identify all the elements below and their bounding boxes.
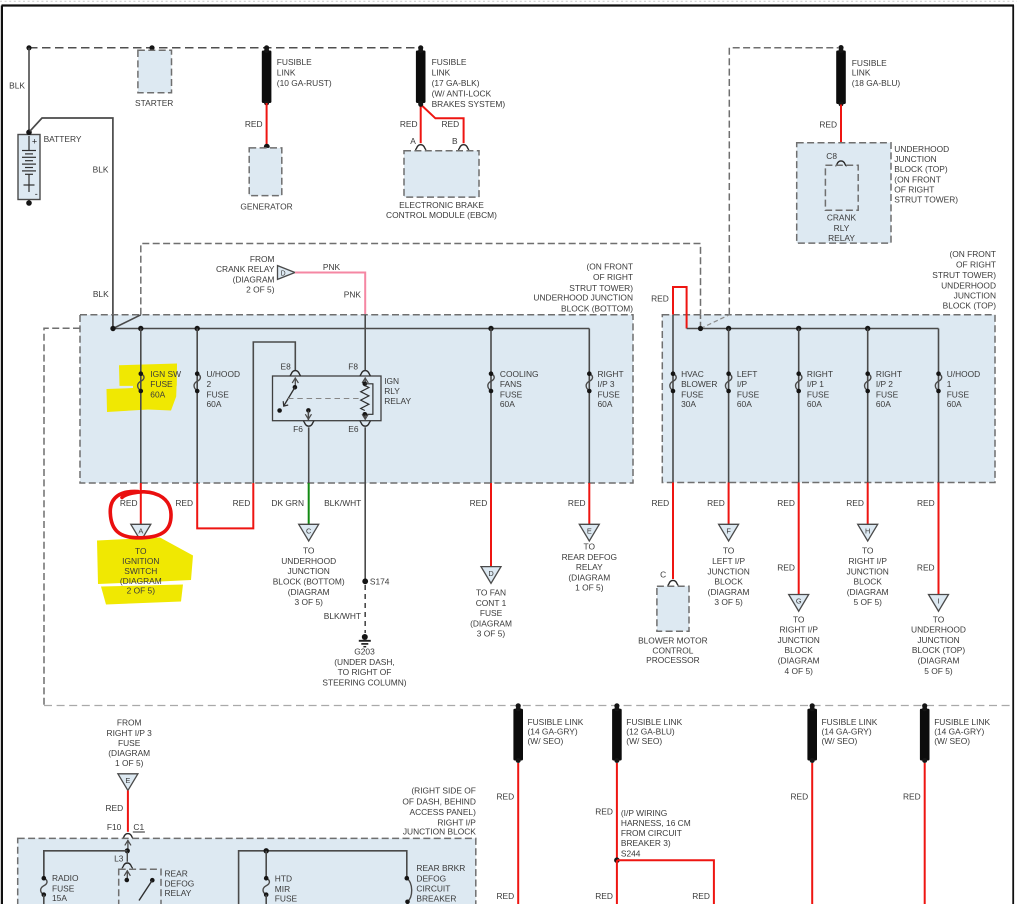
label U/HOOD 1 FUSE 60A (947, 369, 981, 409)
wire BLK/WHT to splice (364, 483, 366, 579)
svg-text:(DIAGRAM: (DIAGRAM (918, 656, 960, 666)
svg-text:LEFT I/P: LEFT I/P (712, 556, 745, 566)
svg-text:LINK: LINK (852, 68, 871, 78)
wire PNK from crank relay (295, 273, 365, 315)
junction dot HTD MIR tap (264, 848, 269, 853)
svg-text:RED: RED (497, 792, 515, 802)
wire RED link1 to generator (266, 103, 268, 146)
top power bus wire (dashed) (29, 47, 421, 49)
terminal arc E8 (290, 371, 301, 376)
svg-text:CONTROL MODULE (EBCM): CONTROL MODULE (EBCM) (386, 210, 497, 220)
svg-text:JUNCTION: JUNCTION (917, 635, 959, 645)
svg-text:60A: 60A (150, 389, 165, 399)
svg-text:DEFOG: DEFOG (416, 873, 446, 883)
annotation: yellow highlight on IGN SW FUSE (107, 364, 178, 413)
svg-text:JUNCTION: JUNCTION (847, 566, 889, 576)
fusible link F3 (18 GA-BLU) (836, 48, 846, 107)
bus wire in box 2 (687, 328, 939, 330)
wire RED to right I/P junction block (4 of 5) (798, 483, 800, 595)
underhood junction block (top) enclosure (797, 143, 891, 243)
terminal arc B (458, 145, 469, 150)
svg-text:(W/ SEO): (W/ SEO) (934, 736, 970, 746)
svg-text:(W/ SEO): (W/ SEO) (822, 736, 858, 746)
svg-text:(DIAGRAM: (DIAGRAM (108, 748, 150, 758)
svg-text:BLOCK (BOTTOM): BLOCK (BOTTOM) (561, 304, 633, 314)
svg-text:UNDERHOOD JUNCTION: UNDERHOOD JUNCTION (533, 293, 633, 303)
fuse COOLING FANS FUSE 60A (488, 371, 494, 393)
wire RED to EBCM pin B (421, 105, 464, 144)
svg-text:G: G (796, 597, 802, 606)
svg-text:COOLING: COOLING (500, 369, 539, 379)
svg-text:CIRCUIT: CIRCUIT (416, 884, 450, 894)
svg-text:LINK: LINK (432, 68, 451, 78)
label COOLING FANS FUSE 60A (500, 369, 539, 409)
svg-text:PROCESSOR: PROCESSOR (646, 655, 700, 665)
svg-text:-: - (35, 189, 38, 199)
svg-text:F: F (726, 527, 731, 536)
svg-text:RELAY: RELAY (384, 396, 411, 406)
svg-text:PNK: PNK (344, 289, 362, 299)
svg-text:TO FAN: TO FAN (476, 588, 506, 598)
label TO RIGHT I/P JUNCTION BLOCK (DIAGRAM 4 OF 5) (778, 614, 820, 676)
right I/P junction block box (18, 838, 476, 908)
svg-text:OF RIGHT: OF RIGHT (956, 260, 996, 270)
svg-text:E: E (587, 527, 592, 536)
underhood junction block (bottom) box (80, 315, 633, 483)
wire E6 to box bottom (364, 427, 366, 483)
label FROM RIGHT I/P 3 FUSE (DIAGRAM 1 OF 5) (107, 718, 153, 769)
svg-text:RED: RED (777, 498, 795, 508)
svg-text:DK GRN: DK GRN (271, 498, 304, 508)
svg-text:CONT 1: CONT 1 (476, 598, 507, 608)
node: link 2 bottom (418, 102, 423, 107)
label FROM CRANK RELAY (DIAGRAM 2 OF 5) (216, 254, 275, 295)
svg-text:G203: G203 (354, 647, 375, 657)
svg-text:I/P 1: I/P 1 (807, 379, 824, 389)
terminal arc F6 (303, 421, 314, 426)
svg-text:U/HOOD: U/HOOD (207, 369, 241, 379)
annotation: red circle around RED/A connector (110, 491, 171, 537)
fuse LEFT I/P FUSE 60A (725, 371, 731, 393)
svg-text:OF DASH, BEHIND: OF DASH, BEHIND (402, 796, 476, 806)
svg-text:RED: RED (175, 498, 193, 508)
node: relay coil pin (125, 878, 130, 883)
node: relay contact pin (150, 878, 155, 883)
fuse HVAC BLOWER FUSE 30A (670, 371, 676, 393)
svg-text:FUSE: FUSE (118, 738, 141, 748)
svg-text:RED: RED (651, 293, 669, 303)
connector triangle H (858, 524, 878, 541)
junction dot IGN SW tap (138, 326, 143, 331)
svg-text:2 OF 5): 2 OF 5) (246, 285, 275, 295)
pin arrow F8 (362, 378, 368, 387)
svg-text:UNDERHOOD: UNDERHOOD (281, 556, 336, 566)
node: battery positive (26, 130, 32, 136)
svg-text:60A: 60A (598, 399, 613, 409)
svg-text:C1: C1 (133, 822, 144, 832)
node: relay common pin (293, 385, 298, 390)
svg-text:60A: 60A (876, 399, 891, 409)
svg-text:D: D (488, 569, 493, 578)
label TO REAR DEFOG RELAY (DIAGRAM 1 OF 5) (562, 542, 617, 593)
wire BLK battery to junction block (bottom) (30, 118, 113, 329)
node: battery negative stub (26, 200, 32, 206)
svg-text:JUNCTION: JUNCTION (954, 291, 996, 301)
svg-text:RELAY: RELAY (576, 562, 603, 572)
svg-text:TO: TO (793, 614, 805, 624)
connector triangle I (929, 595, 949, 612)
svg-text:TO: TO (862, 546, 874, 556)
svg-text:FUSIBLE: FUSIBLE (852, 58, 887, 68)
svg-text:(W/ SEO): (W/ SEO) (528, 736, 564, 746)
fuse RIGHT I/P 2 FUSE 60A (865, 371, 871, 393)
node: relay NO contact (277, 408, 282, 413)
svg-text:HTD: HTD (275, 873, 292, 883)
pin arrow C1 (125, 840, 131, 849)
svg-text:(RIGHT SIDE OF: (RIGHT SIDE OF (411, 786, 476, 796)
svg-text:UNDERHOOD: UNDERHOOD (941, 280, 996, 290)
svg-text:LINK: LINK (277, 68, 296, 78)
underhood junction block (top) box (662, 315, 995, 483)
wire BLK from bus to battery (28, 48, 30, 132)
svg-text:FUSE: FUSE (500, 389, 523, 399)
junction dot COOLING FANS tap (488, 326, 493, 331)
svg-text:JUNCTION: JUNCTION (778, 635, 820, 645)
svg-text:3 OF 5): 3 OF 5) (295, 597, 324, 607)
fuse U/HOOD 1 FUSE 60A (935, 371, 941, 393)
svg-text:STARTER: STARTER (135, 98, 173, 108)
wire HTD MIR fuse column (265, 851, 267, 879)
wire RED to right I/P junction block (5 of 5) (867, 483, 869, 525)
svg-text:BLK/WHT: BLK/WHT (324, 498, 361, 508)
junction dot BLK entry (110, 326, 115, 331)
svg-text:FUSE: FUSE (598, 389, 621, 399)
svg-text:FUSE: FUSE (52, 884, 75, 894)
svg-text:BLK/WHT: BLK/WHT (324, 611, 361, 621)
svg-text:STRUT TOWER): STRUT TOWER) (894, 194, 958, 204)
wire LEFT I/P fuse column (728, 329, 730, 483)
wire F6 pin (307, 410, 309, 420)
bus wire left in junction block (44, 851, 128, 879)
svg-text:I/P 2: I/P 2 (876, 379, 893, 389)
svg-text:I: I (937, 597, 939, 606)
svg-text:1: 1 (947, 379, 952, 389)
svg-text:RLY: RLY (834, 223, 850, 233)
bus wire right in junction block (239, 851, 407, 904)
svg-text:L3: L3 (114, 854, 124, 864)
label C1 (133, 822, 145, 832)
svg-text:FUSIBLE LINK: FUSIBLE LINK (934, 717, 990, 727)
svg-text:60A: 60A (207, 399, 222, 409)
svg-text:MIR: MIR (275, 884, 290, 894)
wire RIGHT I/P 2 fuse column (867, 329, 869, 483)
label LEFT I/P FUSE 60A (737, 369, 760, 409)
connector triangle D (from crank relay) (278, 266, 296, 280)
label BLOWER MOTOR CONTROL PROCESSOR (638, 635, 708, 665)
svg-text:BLOCK (BOTTOM): BLOCK (BOTTOM) (273, 577, 345, 587)
svg-text:FUSIBLE LINK: FUSIBLE LINK (626, 717, 682, 727)
node: fusible link B2 top (614, 703, 619, 708)
label TO IGNITION SWITCH (DIAGRAM 2 OF 5) (120, 546, 162, 596)
fusible link B2 (12 GA-BLU) (W/ SEO) (612, 706, 622, 763)
wire F6 to box bottom (308, 427, 310, 483)
svg-text:E: E (125, 776, 130, 785)
terminal arc C (667, 580, 678, 585)
wire RED link B2 to splice S244 (616, 763, 618, 860)
svg-text:TO RIGHT OF: TO RIGHT OF (338, 667, 392, 677)
svg-text:60A: 60A (737, 399, 752, 409)
separator dashed line (bottom) (44, 705, 1013, 707)
svg-text:STEERING COLUMN): STEERING COLUMN) (322, 677, 406, 687)
terminal arc A (415, 145, 426, 150)
connector triangle C (299, 524, 319, 541)
svg-text:RLY: RLY (384, 386, 400, 396)
svg-text:BATTERY: BATTERY (44, 134, 82, 144)
svg-text:S244: S244 (621, 849, 641, 859)
svg-text:RED: RED (442, 119, 460, 129)
junction dot RIGHT I/P 1 tap (796, 326, 801, 331)
svg-text:JUNCTION BLOCK: JUNCTION BLOCK (403, 827, 476, 837)
svg-text:+: + (32, 137, 37, 147)
label UNDERHOOD JUNCTION BLOCK (TOP)... (894, 144, 958, 204)
wire RADIO fuse column (43, 851, 45, 879)
junction: battery tap on bus (26, 45, 31, 50)
svg-text:JUNCTION: JUNCTION (894, 154, 936, 164)
label G203 (UNDER DASH, TO RIGHT OF STEERING COLUMN) (322, 647, 406, 688)
splice S174 (362, 578, 368, 584)
svg-text:RED: RED (791, 792, 809, 802)
svg-text:UNDERHOOD: UNDERHOOD (911, 625, 966, 635)
svg-text:(DIAGRAM: (DIAGRAM (778, 656, 820, 666)
relay actuation dashed line (288, 398, 360, 400)
svg-text:BLOCK: BLOCK (853, 577, 882, 587)
svg-text:RED: RED (777, 563, 795, 573)
node: coil top (363, 382, 368, 387)
label RIGHT I/P 3 FUSE 60A (598, 369, 624, 409)
label (ON FRONT OF RIGHT STRUT TOWER) UNDERHOOD JUNCTION BLOCK (TOP) (932, 249, 996, 310)
wire RED to EBCM pin A (420, 104, 422, 143)
svg-text:BLOCK (TOP): BLOCK (TOP) (912, 645, 966, 655)
connector triangle G (789, 595, 809, 612)
pin arrow F6 (305, 411, 311, 420)
wire U/HOOD 1 fuse column (938, 329, 940, 483)
svg-text:RELAY: RELAY (828, 233, 855, 243)
terminal arc L3 (122, 863, 133, 868)
svg-text:BLOWER MOTOR: BLOWER MOTOR (638, 635, 708, 645)
wire RED to blower motor control processor (672, 483, 674, 580)
wire RED link B4 down (924, 763, 926, 904)
svg-text:BREAKER 3): BREAKER 3) (621, 838, 671, 848)
svg-text:3 OF 5): 3 OF 5) (714, 597, 743, 607)
svg-text:TO: TO (584, 542, 596, 552)
svg-text:CRANK RELAY: CRANK RELAY (216, 264, 275, 274)
svg-text:I/P: I/P (737, 379, 748, 389)
wire RED to fan cont 1 fuse (490, 483, 492, 567)
label FUSIBLE LINK (10 GA-RUST) (277, 57, 332, 88)
svg-text:5 OF 5): 5 OF 5) (924, 666, 953, 676)
dashed enclosure (junction block area) top/right edges (141, 244, 701, 315)
svg-text:(W/ ANTI-LOCK: (W/ ANTI-LOCK (432, 89, 492, 99)
label HTD MIR FUSE (275, 873, 298, 903)
wire RED to left I/P junction block (728, 483, 730, 525)
svg-text:OF RIGHT: OF RIGHT (894, 185, 934, 195)
dashed enclosure B left edge (44, 328, 80, 705)
svg-text:5 OF 5): 5 OF 5) (854, 597, 883, 607)
svg-text:TO: TO (303, 546, 315, 556)
svg-text:F6: F6 (293, 424, 303, 434)
label (I/P WIRING HARNESS, 16 CM FROM CIRCUIT BREAKER 3) (621, 808, 691, 848)
svg-text:RED: RED (233, 498, 251, 508)
svg-text:RED: RED (707, 498, 725, 508)
svg-text:TO: TO (933, 614, 945, 624)
wire HVAC fuse column (672, 315, 674, 483)
svg-text:RED: RED (652, 498, 670, 508)
svg-text:C8: C8 (826, 151, 837, 161)
relay box IGN RLY RELAY (273, 376, 382, 421)
svg-text:PNK: PNK (323, 262, 341, 272)
label TO LEFT I/P JUNCTION BLOCK (DIAGRAM 3 OF 5) (707, 546, 749, 608)
label IGN SW FUSE 60A (150, 369, 181, 399)
label FUSIBLE LINK (18 GA-BLU) (852, 58, 901, 88)
svg-text:B: B (452, 136, 458, 146)
svg-text:FUSE: FUSE (150, 379, 173, 389)
svg-text:(17 GA-BLK): (17 GA-BLK) (432, 78, 480, 88)
svg-text:DEFOG: DEFOG (165, 878, 195, 888)
junction dot RIGHT I/P 2 tap (865, 326, 870, 331)
wire RED jog into box 2 (673, 287, 687, 329)
terminal arc E6 (360, 421, 371, 426)
svg-text:(DIAGRAM: (DIAGRAM (568, 572, 610, 582)
svg-text:(DIAGRAM: (DIAGRAM (708, 587, 750, 597)
svg-text:RELAY: RELAY (165, 888, 192, 898)
svg-text:RED: RED (846, 498, 864, 508)
svg-text:REAR BRKR: REAR BRKR (416, 863, 465, 873)
svg-text:(ON FRONT: (ON FRONT (586, 261, 633, 271)
node: fusible link B1 top (516, 703, 521, 708)
wire RED to underhood junction block top (938, 483, 940, 595)
svg-text:IGN: IGN (384, 376, 399, 386)
svg-text:(DIAGRAM: (DIAGRAM (120, 576, 162, 586)
svg-text:RED: RED (595, 807, 613, 817)
svg-text:RADIO: RADIO (52, 873, 79, 883)
junction: fusible link 2 tap (418, 45, 423, 50)
svg-text:(DIAGRAM: (DIAGRAM (847, 587, 889, 597)
svg-text:BLK: BLK (9, 81, 25, 91)
node: enclosure edge on bus (698, 326, 703, 331)
svg-text:IGNITION: IGNITION (122, 556, 159, 566)
svg-text:F10: F10 (107, 822, 122, 832)
fuse HTD MIR FUSE (263, 876, 269, 904)
annotation: yellow highlight on TO IGNITION SWITCH (97, 538, 193, 605)
svg-text:ELECTRONIC BRAKE: ELECTRONIC BRAKE (399, 200, 484, 210)
svg-text:BLK: BLK (93, 289, 109, 299)
fusible link F2 (17 GA-BLK) (416, 48, 426, 106)
label REAR DEFOG RELAY (165, 869, 195, 899)
svg-text:A: A (410, 136, 416, 146)
dashed diagonal link to UJB top box (701, 315, 730, 329)
svg-text:FUSE: FUSE (807, 389, 830, 399)
svg-text:A: A (138, 527, 143, 536)
svg-text:RED: RED (692, 891, 710, 901)
svg-text:REAR DEFOG: REAR DEFOG (562, 552, 617, 562)
svg-text:FUSIBLE: FUSIBLE (432, 57, 467, 67)
svg-text:TO: TO (723, 546, 735, 556)
module EBCM (404, 151, 479, 197)
svg-text:LEFT: LEFT (737, 369, 757, 379)
svg-text:C: C (660, 569, 666, 579)
svg-text:BRAKES SYSTEM): BRAKES SYSTEM) (432, 99, 506, 109)
circuit breaker REAR BRKR DEFOG (405, 876, 412, 904)
svg-text:GENERATOR: GENERATOR (240, 201, 292, 211)
svg-text:RED: RED (106, 803, 124, 813)
wire RED link B3 down (811, 763, 813, 904)
fusible link B4 (14 GA-GRY) (W/ SEO) (920, 706, 930, 763)
svg-text:(W/ SEO): (W/ SEO) (626, 736, 662, 746)
svg-text:STRUT TOWER): STRUT TOWER) (932, 270, 996, 280)
label RADIO FUSE 15A (52, 873, 79, 903)
svg-text:H: H (865, 527, 870, 536)
wire BLK entry segment (112, 315, 114, 329)
svg-text:I/P 3: I/P 3 (598, 379, 615, 389)
svg-text:SWITCH: SWITCH (124, 566, 157, 576)
wire PNK continuation to F8 (364, 315, 366, 371)
svg-text:RED: RED (497, 891, 515, 901)
label IGN RLY RELAY (384, 376, 411, 406)
relay switch arm (283, 387, 295, 406)
fuse RADIO FUSE 15A (41, 876, 47, 904)
svg-text:2 OF 5): 2 OF 5) (127, 586, 156, 596)
svg-text:RIGHT I/P: RIGHT I/P (848, 556, 887, 566)
svg-text:CONTROL: CONTROL (652, 645, 693, 655)
svg-text:BLK: BLK (93, 165, 109, 175)
label FUSIBLE LINK (17 GA-BLK) (432, 57, 506, 109)
wire RED link3 to crank relay (840, 105, 842, 160)
wire diagonal BLK entry (113, 315, 141, 329)
wire DK GRN to junction block (308, 483, 310, 524)
svg-text:FUSE: FUSE (480, 608, 503, 618)
svg-text:ACCESS PANEL): ACCESS PANEL) (409, 807, 476, 817)
label TO RIGHT I/P JUNCTION BLOCK (DIAGRAM 5 OF 5) (847, 546, 889, 608)
node: F6 pin (306, 408, 311, 413)
svg-text:JUNCTION: JUNCTION (707, 566, 749, 576)
svg-text:RED: RED (917, 498, 935, 508)
junction: starter tap on bus (149, 45, 154, 50)
wire COOLING FANS fuse column (490, 329, 492, 484)
svg-text:JUNCTION: JUNCTION (288, 566, 330, 576)
wire U/HOOD 2 fuse column (196, 329, 198, 484)
svg-text:(10 GA-RUST): (10 GA-RUST) (277, 78, 332, 88)
svg-text:E6: E6 (348, 424, 359, 434)
svg-text:CRANK: CRANK (827, 213, 857, 223)
svg-text:FROM: FROM (117, 718, 142, 728)
label REAR BRKR DEFOG CIRCUIT BREAKER (416, 863, 465, 904)
junction dot LEFT I/P tap (726, 326, 731, 331)
label RIGHT I/P 2 FUSE 60A (876, 369, 902, 409)
crank relay inner box (825, 165, 858, 210)
svg-text:HARNESS, 16 CM: HARNESS, 16 CM (621, 818, 691, 828)
svg-text:60A: 60A (807, 399, 822, 409)
wire BLK/WHT dashed to ground (364, 585, 366, 633)
svg-text:RED: RED (819, 120, 837, 130)
wire RED splice branch right (617, 860, 714, 904)
svg-text:FUSE: FUSE (737, 389, 760, 399)
label FUSIBLE LINK (14 GA-GRY) (W/ SEO) (822, 717, 878, 746)
wire RED splice down (616, 860, 618, 904)
svg-text:RIGHT: RIGHT (807, 369, 833, 379)
svg-text:(DIAGRAM: (DIAGRAM (470, 618, 512, 628)
svg-text:BLOCK: BLOCK (784, 645, 813, 655)
label (ON FRONT OF RIGHT STRUT TOWER) UNDERHOOD JUNCTION BLOCK (BOTTOM) (533, 261, 633, 313)
